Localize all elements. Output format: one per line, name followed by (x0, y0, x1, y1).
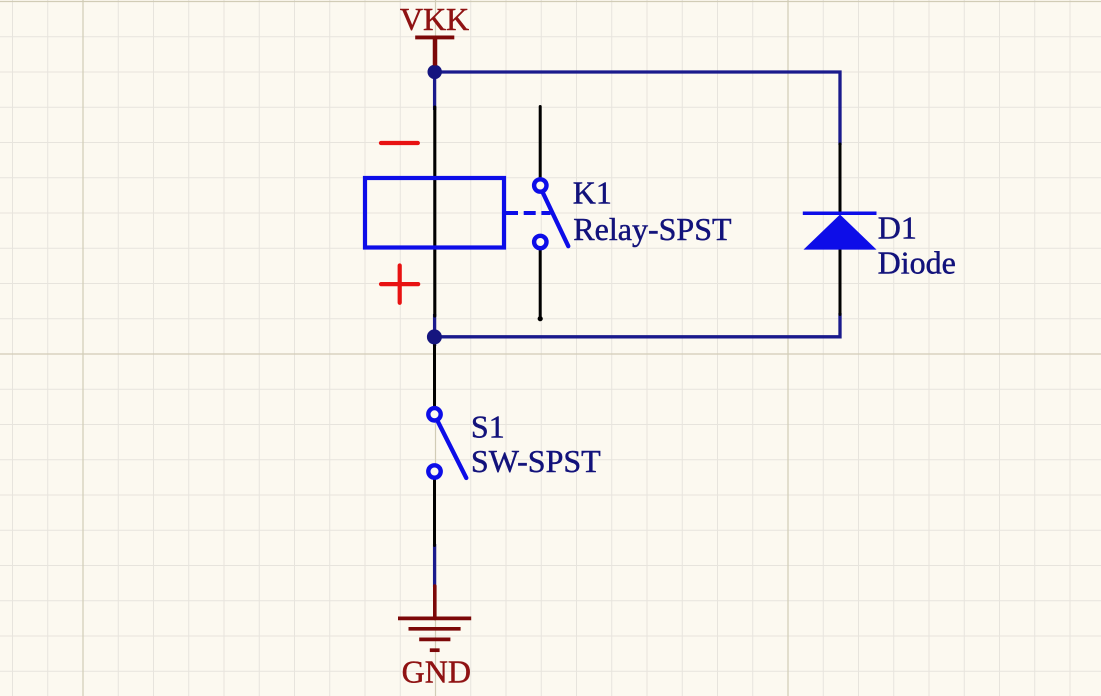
switch S1 diagonal (438, 422, 466, 478)
power VKK bar (415, 35, 454, 39)
relay contact circle bottom (534, 236, 546, 248)
svg-text:VKK: VKK (400, 1, 469, 37)
polarity minus (381, 141, 418, 145)
svg-text:SW-SPST: SW-SPST (471, 443, 601, 479)
switch S1 circle top (428, 408, 440, 420)
ground bar 2 (409, 627, 461, 631)
junction bottom (427, 329, 442, 344)
wire bottom: junction to right and up to diode (435, 313, 840, 337)
ground stem (433, 586, 437, 618)
junction top (428, 65, 442, 79)
S1 bottom pin (433, 480, 436, 546)
relay coil pins (vertical black through rect) (433, 107, 436, 316)
diode D1 triangle (804, 215, 877, 250)
relay K1 coil rect (365, 178, 504, 248)
diode D1 cathode bar (803, 212, 877, 216)
svg-text:Relay-SPST: Relay-SPST (573, 211, 732, 247)
relay contact circle top (534, 179, 546, 191)
relay dashed actuation line (506, 211, 551, 215)
wire: S1 to GND (433, 544, 436, 587)
wire: VKK junction down (433, 65, 436, 110)
S1 top pin (433, 344, 436, 406)
svg-text:D1: D1 (878, 209, 917, 245)
ground bar 3 (419, 638, 450, 642)
relay contact diagonal (543, 192, 569, 246)
relay contact top pin (539, 107, 542, 178)
power VKK stem (433, 37, 438, 65)
switch S1 circle bottom (428, 465, 440, 477)
svg-text:S1: S1 (471, 409, 505, 445)
diode top pin (839, 144, 842, 212)
wire: coil to bottom junction (433, 314, 436, 338)
svg-text:Diode: Diode (878, 245, 956, 281)
svg-text:GND: GND (402, 653, 471, 689)
relay contact bottom pin (539, 250, 542, 319)
svg-text:K1: K1 (573, 174, 612, 210)
wire top: junction to right and down to diode (435, 72, 840, 145)
polarity plus (381, 266, 418, 303)
diode bottom pin (839, 249, 842, 315)
ground bar 1 (398, 617, 471, 621)
ground bar 4 (430, 648, 440, 652)
wire: below bottom junction (433, 337, 436, 346)
